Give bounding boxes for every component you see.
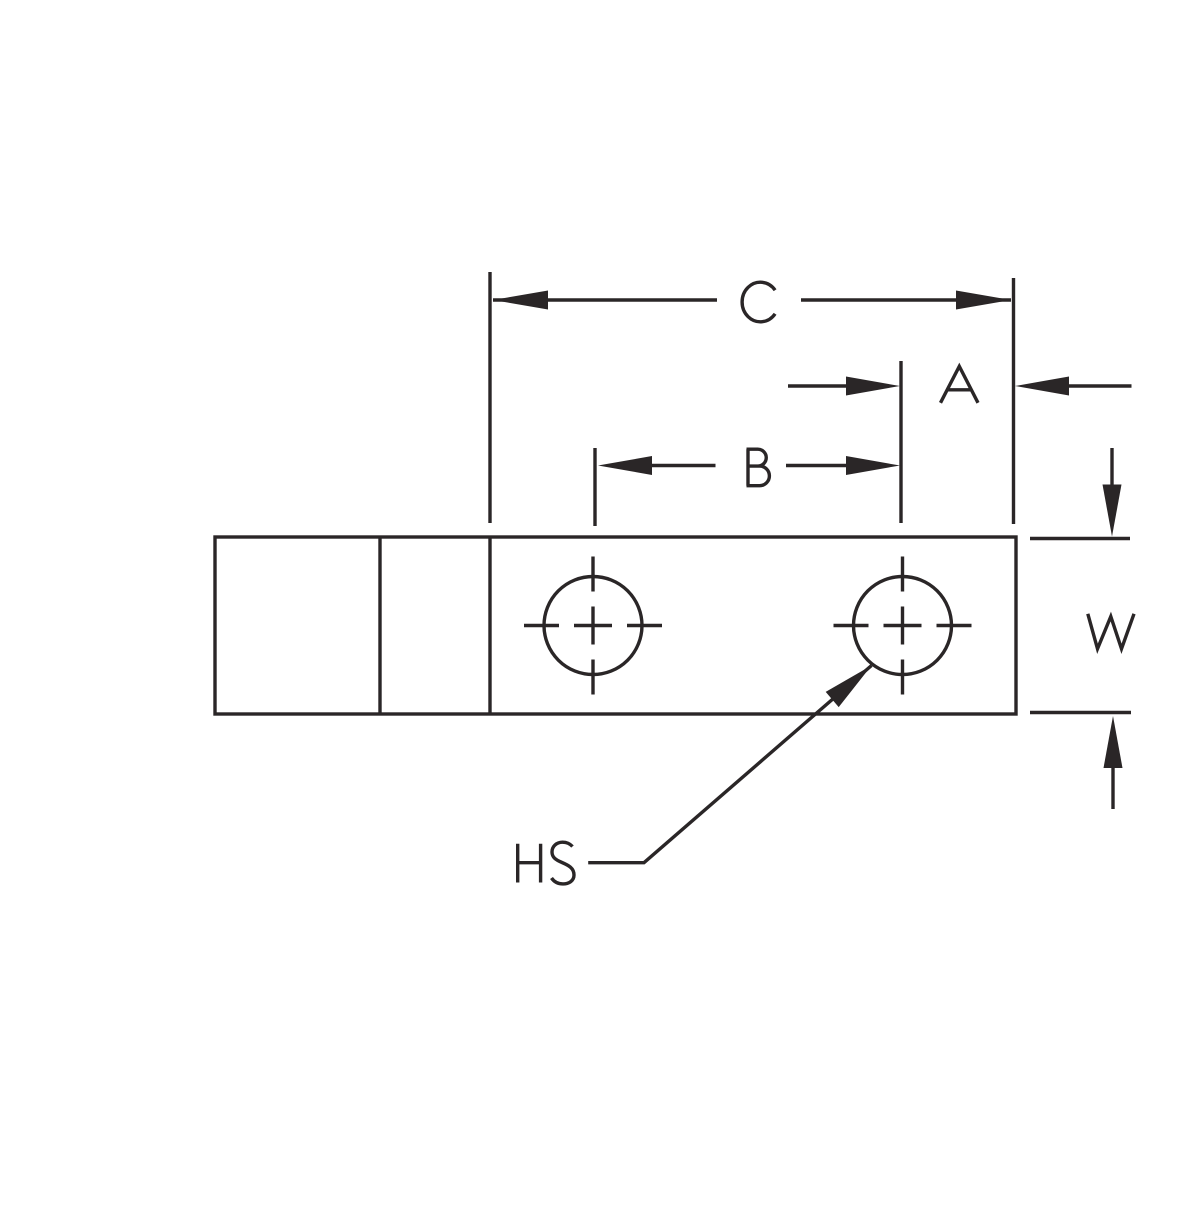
label W xyxy=(1088,614,1134,649)
label B xyxy=(747,449,770,486)
feature line 2 xyxy=(488,537,491,714)
dimension A extension line xyxy=(899,361,902,523)
dimension C extension line left xyxy=(488,272,491,523)
dimension C line right segment xyxy=(801,298,1011,301)
leader line HS xyxy=(588,666,871,863)
part outline xyxy=(215,537,1016,714)
hole H1 xyxy=(544,577,642,675)
feature line 1 xyxy=(378,537,381,714)
leader arrow HS xyxy=(826,666,872,708)
label C xyxy=(742,282,775,322)
dimension C arrow right xyxy=(956,291,1011,310)
dimension B arrow left xyxy=(598,456,652,475)
dimension A arrow left xyxy=(846,377,900,396)
centermark H2 xyxy=(834,557,972,695)
dimension A arrow right xyxy=(1015,377,1069,396)
label HS xyxy=(516,842,574,884)
dimension W extension line top xyxy=(1030,537,1130,540)
dimension A tail left xyxy=(788,384,850,387)
dimension B line left segment xyxy=(650,464,716,467)
dimension W arrow top xyxy=(1110,448,1113,500)
dimension W arrow bottom xyxy=(1111,768,1114,809)
dimension B extension line left xyxy=(593,448,596,526)
dimension W extension line bottom xyxy=(1030,711,1131,714)
dimension B arrow right xyxy=(846,456,900,475)
dimension C arrow left xyxy=(493,291,548,310)
dimension B line right segment xyxy=(786,464,848,467)
label A xyxy=(941,366,979,403)
hole H2 xyxy=(854,577,952,675)
dimension A tail right xyxy=(1067,384,1132,387)
dimension C line left segment xyxy=(493,298,717,301)
centermark H1 xyxy=(524,557,662,695)
dimension C extension line right xyxy=(1012,278,1015,524)
